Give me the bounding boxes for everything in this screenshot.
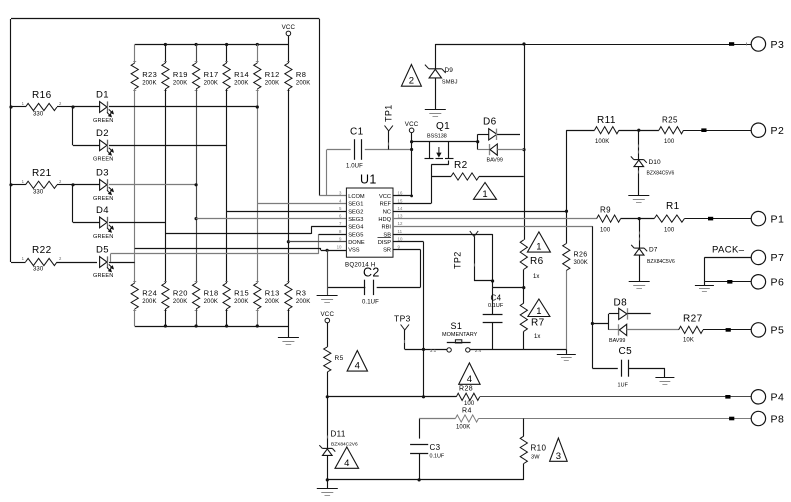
wire VSS riser xyxy=(327,250,329,295)
svg-text:200K: 200K xyxy=(142,299,156,305)
svg-text:3: 3 xyxy=(556,451,561,462)
svg-text:330: 330 xyxy=(33,112,44,118)
svg-text:200K: 200K xyxy=(296,299,310,305)
resistor R15 200K xyxy=(225,281,228,283)
svg-text:100: 100 xyxy=(464,401,475,407)
LED D4 GREEN xyxy=(73,222,100,224)
connector P1 xyxy=(684,218,751,220)
svg-text:9: 9 xyxy=(398,244,401,249)
resistor R13 200K xyxy=(256,281,259,283)
diode D7 BZX84C5V6 zener xyxy=(639,219,641,248)
svg-text:200K: 200K xyxy=(142,81,156,87)
svg-text:10: 10 xyxy=(398,237,403,242)
wire Q1 source to REF node xyxy=(448,161,450,165)
wire bottom bus xyxy=(135,326,289,328)
wire PACK ground xyxy=(704,257,706,281)
diode D9 SMBJ zener xyxy=(435,44,437,69)
resistor R23 200K xyxy=(134,45,136,64)
svg-text:P3: P3 xyxy=(771,39,785,51)
svg-text:5: 5 xyxy=(339,206,342,211)
svg-text:100K: 100K xyxy=(595,139,609,145)
svg-text:D9: D9 xyxy=(445,67,454,74)
svg-text:200K: 200K xyxy=(296,81,310,87)
power VCC top xyxy=(286,31,291,36)
svg-text:TP3: TP3 xyxy=(394,314,411,324)
svg-text:SMBJ: SMBJ xyxy=(442,80,458,86)
resistor R22 330 xyxy=(11,262,26,264)
svg-text:100: 100 xyxy=(664,228,675,234)
svg-text:C5: C5 xyxy=(619,346,633,357)
svg-text:SR: SR xyxy=(383,248,391,254)
wire SEG5 xyxy=(110,254,112,262)
svg-text:4: 4 xyxy=(344,458,349,469)
svg-text:LCOM: LCOM xyxy=(348,194,365,200)
node D3-D4 split xyxy=(71,183,74,186)
svg-text:1x: 1x xyxy=(534,334,541,340)
svg-text:VCC: VCC xyxy=(405,121,419,128)
svg-text:200K: 200K xyxy=(204,299,218,305)
resistor R27 10K xyxy=(627,329,679,331)
svg-text:200K: 200K xyxy=(265,81,279,87)
svg-text:Q1: Q1 xyxy=(436,121,450,132)
svg-text:P1: P1 xyxy=(771,213,785,225)
wire to D4 xyxy=(72,185,74,223)
wire R11 row xyxy=(566,130,568,211)
svg-text:DONE: DONE xyxy=(348,240,365,246)
svg-text:4: 4 xyxy=(467,374,472,385)
wire RBI net xyxy=(393,226,592,228)
resistor R9 100 xyxy=(597,215,621,222)
svg-text:R20: R20 xyxy=(173,289,188,298)
svg-text:R17: R17 xyxy=(204,70,219,79)
svg-text:P2: P2 xyxy=(771,125,785,137)
wire DISP net xyxy=(393,241,424,243)
svg-text:VSS: VSS xyxy=(348,248,360,254)
svg-text:D5: D5 xyxy=(96,245,109,256)
svg-text:0.1UF: 0.1UF xyxy=(488,303,504,309)
wire VSS net xyxy=(135,248,321,250)
svg-text:R22: R22 xyxy=(32,245,52,256)
svg-text:TP2: TP2 xyxy=(453,251,463,269)
svg-text:GREEN: GREEN xyxy=(93,157,113,163)
power VCC bottom xyxy=(325,318,330,323)
svg-text:14: 14 xyxy=(398,206,403,211)
svg-text:U1: U1 xyxy=(360,173,377,187)
svg-text:D10: D10 xyxy=(649,159,662,166)
svg-text:1: 1 xyxy=(22,179,25,184)
note triangle 1 at R6 xyxy=(527,232,550,252)
svg-text:SEG1: SEG1 xyxy=(348,202,363,208)
resistor R10 3W xyxy=(523,419,525,437)
svg-text:200K: 200K xyxy=(265,299,279,305)
svg-text:3W: 3W xyxy=(531,455,540,461)
svg-text:REF: REF xyxy=(380,202,392,208)
LED D1 GREEN xyxy=(73,106,100,108)
LED D2 GREEN xyxy=(73,145,100,147)
wire divider node row xyxy=(493,287,524,289)
svg-text:1: 1 xyxy=(536,242,541,253)
connector P3 xyxy=(524,44,751,46)
wire REF riser xyxy=(431,177,433,204)
resistor R20 200K xyxy=(164,281,167,283)
svg-text:R11: R11 xyxy=(597,115,616,126)
ground D9 xyxy=(425,109,446,111)
power VCC mid xyxy=(409,128,414,133)
wire SEG4 xyxy=(165,233,311,235)
note triangle 4 at R5 xyxy=(347,351,367,372)
note triangle 4 at R28 xyxy=(459,363,480,384)
svg-text:R9: R9 xyxy=(600,206,611,215)
resistor R14 200K xyxy=(226,45,228,64)
svg-text:P4: P4 xyxy=(771,392,785,404)
ground LED bank xyxy=(288,326,290,338)
svg-text:2: 2 xyxy=(59,179,62,184)
capacitor C5 1UF xyxy=(592,368,617,370)
resistor R2 xyxy=(431,176,451,178)
svg-text:BZX84C5V6: BZX84C5V6 xyxy=(647,259,675,265)
svg-text:R15: R15 xyxy=(234,289,249,298)
svg-text:R2: R2 xyxy=(454,160,468,171)
testpoint TP2 xyxy=(470,231,474,237)
svg-text:P8: P8 xyxy=(771,413,785,425)
wire column R17-R18 xyxy=(196,89,198,283)
wire S1 row right xyxy=(524,349,567,351)
svg-text:S1: S1 xyxy=(451,321,463,331)
IC U1 BQ2014H xyxy=(346,188,393,257)
wire column R8-R3 xyxy=(288,89,290,283)
svg-text:3: 3 xyxy=(339,190,342,195)
svg-text:R21: R21 xyxy=(32,168,52,179)
resistor R28 100 xyxy=(456,393,479,400)
svg-text:R23: R23 xyxy=(142,70,157,79)
wire DONE xyxy=(287,240,290,243)
LED D5 GREEN xyxy=(100,257,107,268)
ground C5 xyxy=(664,368,666,378)
svg-text:1: 1 xyxy=(22,256,25,261)
svg-text:R4: R4 xyxy=(462,408,472,415)
node D1-D2 split xyxy=(71,105,74,108)
ground D7 xyxy=(629,281,650,283)
resistor R7 1x xyxy=(523,288,525,304)
svg-text:VCC: VCC xyxy=(379,194,391,200)
svg-text:D4: D4 xyxy=(96,205,109,216)
note triangle 2 xyxy=(401,65,421,87)
svg-text:0.1UF: 0.1UF xyxy=(430,454,445,460)
svg-text:3.1: 3.1 xyxy=(430,348,437,353)
svg-text:P5: P5 xyxy=(771,325,785,337)
svg-text:C1: C1 xyxy=(350,127,364,138)
note triangle 1 at R7 xyxy=(528,299,550,317)
svg-text:D7: D7 xyxy=(649,247,658,254)
svg-text:1UF: 1UF xyxy=(618,383,629,389)
svg-text:R5: R5 xyxy=(335,355,344,362)
svg-text:C2: C2 xyxy=(363,266,380,280)
svg-text:GREEN: GREEN xyxy=(93,273,113,279)
wire NC net xyxy=(393,211,567,213)
svg-text:100: 100 xyxy=(600,228,611,234)
svg-text:SEG3: SEG3 xyxy=(348,217,363,223)
wire to D2 xyxy=(72,107,74,145)
svg-text:2: 2 xyxy=(59,256,62,261)
svg-text:R16: R16 xyxy=(32,90,52,101)
svg-text:2: 2 xyxy=(59,101,62,106)
svg-text:200K: 200K xyxy=(234,299,248,305)
svg-text:R3: R3 xyxy=(296,289,306,298)
svg-text:8: 8 xyxy=(339,229,342,234)
capacitor C2 0.1UF xyxy=(377,287,421,289)
svg-text:0.1UF: 0.1UF xyxy=(362,300,379,306)
svg-text:D2: D2 xyxy=(96,128,109,139)
svg-text:P6: P6 xyxy=(771,277,785,289)
svg-text:VCC: VCC xyxy=(320,311,334,318)
wire R28 row xyxy=(327,396,456,398)
svg-text:4: 4 xyxy=(355,361,360,372)
svg-text:P7: P7 xyxy=(771,252,785,264)
wire SEG3 xyxy=(195,217,198,220)
svg-text:D1: D1 xyxy=(96,90,109,101)
connector P4 xyxy=(480,396,752,398)
resistor R12 200K xyxy=(257,45,259,64)
svg-text:2.4: 2.4 xyxy=(475,348,482,353)
ground S1 row xyxy=(566,349,568,354)
wire SR net xyxy=(393,249,420,251)
svg-text:BAV99: BAV99 xyxy=(487,158,503,164)
svg-text:NC: NC xyxy=(383,209,391,215)
svg-text:200K: 200K xyxy=(173,299,187,305)
svg-text:R7: R7 xyxy=(531,318,545,329)
svg-text:330: 330 xyxy=(33,267,44,273)
svg-text:MOMENTARY: MOMENTARY xyxy=(442,332,478,338)
svg-text:R10: R10 xyxy=(531,444,547,453)
svg-text:SEG2: SEG2 xyxy=(348,209,363,215)
svg-text:330: 330 xyxy=(33,190,44,196)
svg-text:6: 6 xyxy=(339,214,342,219)
resistor R11 100K xyxy=(595,127,619,134)
svg-text:200K: 200K xyxy=(173,81,187,87)
svg-text:200K: 200K xyxy=(234,81,248,87)
svg-text:R18: R18 xyxy=(204,289,219,298)
svg-text:10K: 10K xyxy=(683,338,694,344)
svg-text:GREEN: GREEN xyxy=(93,196,113,202)
svg-text:1x: 1x xyxy=(533,274,540,280)
svg-text:100K: 100K xyxy=(456,425,470,431)
svg-text:4: 4 xyxy=(339,198,342,203)
svg-text:D11: D11 xyxy=(331,430,346,439)
resistor R4 100K xyxy=(419,418,455,420)
svg-text:SEG5: SEG5 xyxy=(348,232,363,238)
ground D11 xyxy=(327,480,329,488)
svg-text:R6: R6 xyxy=(530,256,544,267)
svg-text:R19: R19 xyxy=(173,70,188,79)
svg-text:R1: R1 xyxy=(666,201,680,212)
wire bottom bus xyxy=(327,479,524,481)
svg-text:16: 16 xyxy=(398,190,403,195)
wire VCC top bus xyxy=(135,44,289,46)
svg-text:D3: D3 xyxy=(96,168,109,179)
svg-text:1: 1 xyxy=(22,101,25,106)
wire LCOM to U1 xyxy=(319,195,346,197)
svg-text:9: 9 xyxy=(339,237,342,242)
svg-text:15: 15 xyxy=(398,198,403,203)
svg-text:C4: C4 xyxy=(491,294,502,303)
svg-text:12: 12 xyxy=(398,221,403,226)
svg-text:BAV99: BAV99 xyxy=(609,338,625,344)
svg-text:C3: C3 xyxy=(430,443,441,452)
wire SEG2 xyxy=(227,211,347,213)
svg-text:R13: R13 xyxy=(265,289,280,298)
resistor R3 200K xyxy=(287,281,290,283)
svg-text:TP1: TP1 xyxy=(384,104,394,122)
resistor R17 200K xyxy=(196,45,198,64)
svg-text:200K: 200K xyxy=(204,81,218,87)
wire VCC to U1 pin xyxy=(393,195,412,197)
resistor R24 200K xyxy=(133,281,136,283)
svg-text:10: 10 xyxy=(337,244,342,249)
note triangle 4 at D11 xyxy=(335,447,359,468)
capacitor C4 0.1UF xyxy=(492,288,494,315)
svg-text:GREEN: GREEN xyxy=(93,234,113,240)
svg-text:R27: R27 xyxy=(683,314,703,325)
svg-text:PACK–: PACK– xyxy=(712,245,745,256)
note triangle 3 at R10 xyxy=(550,438,568,461)
svg-text:R8: R8 xyxy=(296,70,306,79)
svg-text:11: 11 xyxy=(398,229,403,234)
svg-text:1.0UF: 1.0UF xyxy=(346,164,363,170)
connector P6 xyxy=(704,281,751,283)
capacitor C1 1.0UF xyxy=(326,150,328,196)
resistor R1 100 xyxy=(654,215,684,222)
svg-text:RBI: RBI xyxy=(382,225,392,231)
resistor R8 200K xyxy=(288,45,290,64)
svg-text:BZX84C2V6: BZX84C2V6 xyxy=(331,442,358,448)
diode D11 BZX84C2V6 zener xyxy=(327,397,329,449)
ground VSS xyxy=(317,295,338,297)
resistor R21 330 xyxy=(9,183,12,186)
connector P2 xyxy=(684,130,752,132)
connector P7 xyxy=(704,257,751,259)
wire column R14-R15 xyxy=(226,89,228,283)
svg-text:DISP: DISP xyxy=(378,240,391,246)
svg-text:HDQ: HDQ xyxy=(378,217,391,223)
ground PACK xyxy=(704,282,706,285)
svg-text:R12: R12 xyxy=(265,70,280,79)
wire SEG1 xyxy=(257,203,346,205)
svg-text:100: 100 xyxy=(664,139,675,145)
svg-text:R24: R24 xyxy=(142,289,157,298)
resistor R19 200K xyxy=(165,45,167,64)
ground D10 xyxy=(628,195,649,197)
svg-text:D6: D6 xyxy=(483,117,497,128)
svg-text:VCC: VCC xyxy=(282,24,296,31)
connector P5 xyxy=(703,329,751,331)
svg-text:R26: R26 xyxy=(574,252,588,259)
svg-text:BZX84C5V6: BZX84C5V6 xyxy=(647,171,675,177)
svg-text:GREEN: GREEN xyxy=(93,118,113,124)
svg-text:1: 1 xyxy=(536,306,541,317)
resistor R5 xyxy=(324,347,331,372)
wire R4 row xyxy=(419,419,421,439)
wire LCOM frame box xyxy=(11,18,319,20)
wire column R23-R24 xyxy=(134,89,136,283)
svg-text:R14: R14 xyxy=(234,70,249,79)
svg-text:300K: 300K xyxy=(574,260,588,266)
wire top net to P3 xyxy=(435,44,524,46)
svg-text:D8: D8 xyxy=(614,298,628,309)
testpoint TP1 xyxy=(385,126,389,132)
svg-text:SEG4: SEG4 xyxy=(348,225,363,231)
wire column R19-R20 xyxy=(165,89,167,283)
resistor R26 300K xyxy=(566,211,568,243)
svg-text:13: 13 xyxy=(398,214,403,219)
LED D3 GREEN xyxy=(73,184,100,186)
svg-text:R25: R25 xyxy=(662,116,678,125)
svg-text:1: 1 xyxy=(482,189,487,200)
resistor R16 330 xyxy=(9,105,12,108)
svg-text:BSS138: BSS138 xyxy=(427,134,447,140)
resistor R18 200K xyxy=(195,281,198,283)
svg-text:R28: R28 xyxy=(459,386,473,393)
wire HDQ net xyxy=(393,218,597,220)
svg-text:2: 2 xyxy=(409,76,414,87)
note triangle 1 at R2 xyxy=(474,183,497,200)
wire column R12-R13 xyxy=(257,89,259,283)
svg-text:7: 7 xyxy=(339,221,342,226)
connector P8 xyxy=(479,418,752,420)
wire vertical pack net xyxy=(522,42,525,45)
resistor R25 100 xyxy=(659,127,684,134)
resistor R6 1x xyxy=(520,240,527,270)
wire SB net xyxy=(393,234,493,236)
diode D10 BZX84C5V6 zener xyxy=(638,130,640,159)
capacitor C3 0.1UF xyxy=(410,444,428,446)
